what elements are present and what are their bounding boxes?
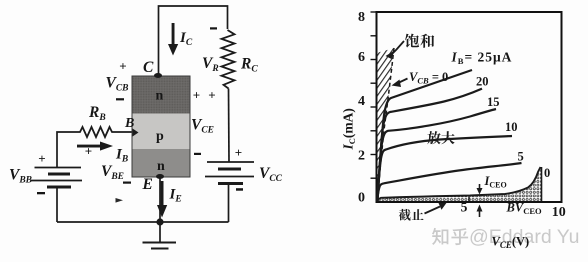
chart axes box [377,12,562,202]
arrow ICEO down [477,184,483,195]
transistor emitter n region [132,149,190,177]
curve IB=5uA [377,163,522,202]
svg-text:+: + [85,144,92,159]
node B dot [133,129,139,137]
label saturation 饱 [405,34,419,48]
battery VBB [31,168,82,188]
cutoff and breakdown hatched region [377,167,542,202]
svg-text:p: p [156,129,164,144]
svg-text:10: 10 [505,120,518,134]
minus VCC [236,188,243,191]
wire emitter [159,177,161,222]
svg-text:10: 10 [552,205,566,220]
svg-text:4: 4 [358,94,365,109]
wire collector top [159,6,228,75]
minus VBB [37,192,45,194]
label active 大 [441,131,454,144]
svg-text:+: + [38,151,45,166]
svg-text:C: C [143,59,154,76]
curve IB=25uA [378,70,473,201]
arrow ICEO up [477,205,483,218]
transistor base p region [132,114,190,150]
wire bottom rail [57,221,229,223]
curve IB=0 breakdown [377,167,541,200]
VCB=0 dashed boundary [378,48,395,202]
svg-text:2: 2 [358,149,365,164]
watermark 知 [432,228,448,245]
transistor npn block: collector n region [132,76,190,114]
curve IB=15uA [377,109,496,202]
label active 放 [427,131,440,144]
svg-text:VCB = 0: VCB = 0 [409,70,448,86]
transistor block outline [132,76,190,177]
svg-text:+: + [119,59,126,74]
junction node ground [156,218,163,225]
x-axis tick 5V [468,197,470,202]
wire VBB to bottom [56,187,58,222]
wire RC to VCC [228,89,231,163]
svg-text:E: E [142,176,153,193]
curve IB=10uA [377,136,512,202]
svg-text:+: + [208,88,215,103]
y-axis ticks [371,12,377,178]
watermark 乎 [451,228,468,245]
loop direction mark [116,198,124,203]
svg-text:n: n [156,89,164,104]
label saturation 和 [420,34,434,48]
svg-text:+: + [235,145,242,160]
arrow VCB=0 [392,79,408,88]
chart saturation hatched region [377,48,395,202]
battery VCC [205,162,254,184]
label cutoff 截 [399,209,411,221]
svg-text:8: 8 [358,10,365,25]
svg-text:0: 0 [358,191,365,206]
current arrow IC [168,23,178,56]
node C dot [154,73,162,78]
resistor RC [222,30,235,89]
svg-text:15: 15 [487,95,500,109]
minus VCE [194,153,201,155]
resistor RB [76,127,133,137]
current arrow IE [157,181,167,218]
svg-text:n: n [157,159,165,174]
minus VCB [116,98,124,100]
svg-text:B: B [124,116,134,131]
wire VBB top [57,132,76,168]
svg-text:+: + [193,88,200,103]
node E dot [156,174,164,179]
svg-text:5: 5 [461,200,468,215]
svg-text:0: 0 [544,166,550,180]
svg-text:20: 20 [476,75,489,89]
label cutoff 止 [412,209,424,220]
arrow cutoff [425,203,447,214]
minus VBE [123,182,131,184]
curve IB=20uA [378,89,483,201]
svg-text:6: 6 [358,50,365,65]
wire VCC to bottom [228,184,230,223]
svg-text:5: 5 [518,150,524,164]
arrow to saturation [386,41,405,59]
minus VR [210,27,217,29]
ground [143,222,177,249]
current arrow IB [77,142,113,151]
breakdown right edge [541,167,543,202]
